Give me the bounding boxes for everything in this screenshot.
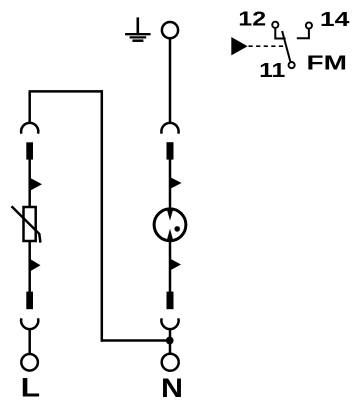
contact 12 xyxy=(272,22,278,28)
wire xyxy=(169,159,172,209)
wire xyxy=(28,241,31,292)
switch lever FM xyxy=(282,31,290,61)
wire xyxy=(169,329,172,353)
spark gap xyxy=(154,208,186,242)
thermal disconnect arrow xyxy=(169,177,181,190)
disconnect contact L lower xyxy=(21,318,38,329)
dashed actuator link xyxy=(249,45,287,47)
svg-text:N: N xyxy=(161,373,183,403)
wire xyxy=(275,29,285,39)
svg-text:L: L xyxy=(21,373,41,403)
wire xyxy=(297,29,309,38)
wire xyxy=(28,159,31,207)
svg-text:12: 12 xyxy=(238,9,266,31)
wire xyxy=(101,90,104,342)
wire xyxy=(28,91,31,122)
cartridge pin L upper xyxy=(26,142,33,159)
wire xyxy=(169,38,172,123)
disconnect contact L upper xyxy=(21,123,38,134)
svg-text:FM: FM xyxy=(307,52,348,74)
actuator arrow xyxy=(231,37,247,55)
varistor xyxy=(12,206,41,242)
svg-text:11: 11 xyxy=(259,60,285,82)
disconnect contact N lower xyxy=(161,318,178,329)
terminal N xyxy=(162,354,179,371)
thermal disconnect arrow xyxy=(29,177,42,191)
cartridge pin N upper xyxy=(167,142,174,159)
wire xyxy=(28,329,31,353)
wire xyxy=(169,241,172,292)
wire xyxy=(102,339,170,342)
junction xyxy=(166,337,174,345)
ground xyxy=(125,17,151,40)
contact 11 xyxy=(289,62,295,68)
terminal L xyxy=(21,354,38,371)
thermal disconnect arrow xyxy=(169,258,181,270)
cartridge pin N lower xyxy=(167,292,174,310)
contact 14 xyxy=(306,22,312,28)
thermal disconnect arrow xyxy=(29,258,41,272)
disconnect contact N upper xyxy=(161,123,178,134)
svg-text:14: 14 xyxy=(320,9,351,31)
terminal PE xyxy=(162,22,178,38)
cartridge pin L lower xyxy=(26,292,33,310)
wire xyxy=(29,90,104,93)
